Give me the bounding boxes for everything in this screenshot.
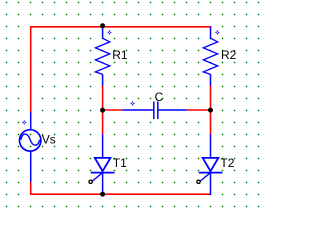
svg-text:R2: R2 <box>221 48 237 62</box>
gate terminal circle of T1 <box>89 180 92 183</box>
AC voltage source Vs <box>20 112 41 182</box>
svg-text:T2: T2 <box>220 156 234 170</box>
wire: R1 bottom lead to middle-left node <box>102 85 104 110</box>
svg-text:T1: T1 <box>113 156 127 170</box>
wire: middle-left node to capacitor C left lead <box>103 109 123 111</box>
capacitor C <box>122 102 187 120</box>
svg-text:R1: R1 <box>112 48 128 62</box>
wire: left vertical from top-left corner to Vs top terminal <box>30 26 32 112</box>
wire: middle-right node down to T2 anode <box>210 110 212 134</box>
junction node: R2/C/T2 middle-right node <box>208 108 213 113</box>
thyristor T1 <box>91 134 115 195</box>
resistor R1 <box>95 27 111 86</box>
svg-text:C: C <box>155 90 164 104</box>
wire: bottom horizontal net from bottom-left corner to T2 cathode <box>30 193 211 195</box>
wire: R2 bottom lead to middle-right node <box>210 85 212 110</box>
wire: left vertical from Vs bottom terminal to bottom-left corner <box>30 182 32 195</box>
wire: middle-left node down to T1 anode <box>102 110 104 134</box>
resistor R2 <box>203 27 219 86</box>
junction node: R1/C/T1 middle-left node <box>100 108 105 113</box>
junction node: R1 top on top net <box>100 23 105 28</box>
wire: top horizontal net from top-left corner to R2 top <box>30 26 212 28</box>
thyristor T2 <box>199 134 223 195</box>
wire: capacitor C right lead to middle-right node <box>187 109 211 111</box>
gate terminal circle of T2 <box>197 180 200 183</box>
svg-text:Vs: Vs <box>42 133 56 147</box>
junction node: T1 cathode on bottom net <box>100 192 105 197</box>
